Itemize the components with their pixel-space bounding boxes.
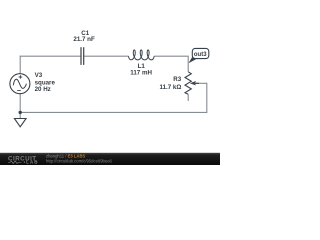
svg-text:21.7 nF: 21.7 nF: [73, 36, 95, 43]
svg-text:V3: V3: [35, 72, 43, 79]
svg-text:R3: R3: [173, 76, 181, 83]
V3 sine wave: [13, 79, 26, 88]
potentiometer R3 zigzag: [185, 72, 191, 95]
wire top-left horizontal: [20, 55, 81, 57]
wire R3 bottom stub: [187, 94, 189, 101]
wire left vertical source top: [19, 56, 21, 74]
node out3 flag pointer: [189, 56, 198, 63]
R3 wiper arrow shaft: [195, 82, 199, 84]
wire bottom horizontal: [20, 111, 208, 113]
node out3 label box: [192, 48, 209, 58]
V3 minus sign: [17, 90, 21, 92]
svg-text:20 Hz: 20 Hz: [35, 86, 51, 93]
logo zigzag: [8, 161, 22, 164]
inductor L1: [128, 50, 154, 60]
wire inductor to corner and down to R3: [154, 56, 188, 72]
wire source bottom to ground: [19, 94, 21, 119]
svg-text:▪LAB: ▪LAB: [24, 160, 39, 165]
svg-text:11.7 kΩ: 11.7 kΩ: [159, 84, 181, 91]
wire wiper to right rail down to bottom: [195, 83, 207, 112]
capacitor C1: [81, 47, 84, 65]
junction dot: [19, 111, 22, 114]
svg-text:117 mH: 117 mH: [130, 70, 152, 77]
R3 wiper arrowhead: [190, 81, 196, 86]
wire cap to inductor: [84, 55, 128, 57]
V3 plus sign: [19, 75, 23, 79]
voltage source V3 circle: [10, 74, 30, 94]
svg-text:out3: out3: [194, 52, 207, 58]
ground symbol: [14, 119, 26, 127]
svg-text:http://circuitlab.com/c/95dce8: http://circuitlab.com/c/95dce89bee6: [46, 158, 113, 163]
